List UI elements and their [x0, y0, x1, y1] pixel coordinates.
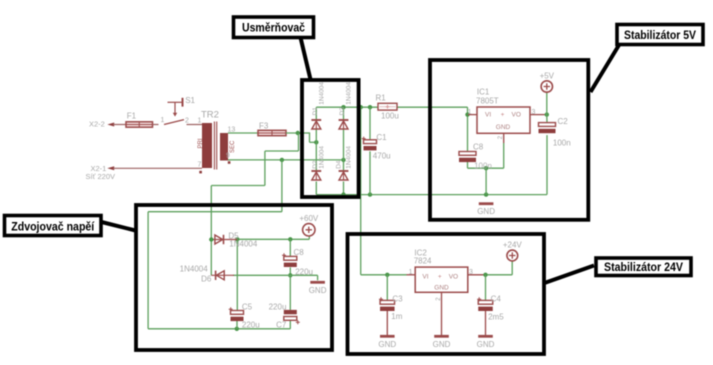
svg-text:VI: VI: [422, 274, 428, 281]
svg-text:C1: C1: [376, 133, 387, 142]
svg-text:1: 1: [409, 269, 413, 276]
svg-text:+60V: +60V: [299, 214, 319, 223]
svg-text:D4: D4: [336, 160, 343, 169]
svg-text:C8: C8: [473, 142, 484, 151]
svg-text:C5: C5: [242, 303, 253, 312]
svg-text:GND: GND: [434, 285, 449, 292]
svg-text:VO: VO: [449, 274, 458, 281]
svg-text:GND: GND: [477, 207, 495, 216]
svg-text:7824: 7824: [414, 256, 432, 265]
svg-text:220u: 220u: [295, 267, 313, 276]
svg-text:100u: 100u: [381, 111, 399, 120]
svg-text:PRI: PRI: [198, 138, 204, 148]
svg-text:1N4004: 1N4004: [345, 146, 352, 169]
svg-text:100n: 100n: [553, 139, 571, 148]
svg-text:3: 3: [469, 269, 473, 276]
svg-text:S1: S1: [185, 96, 195, 105]
svg-text:+24V: +24V: [503, 241, 523, 250]
svg-text:GND: GND: [309, 286, 327, 295]
svg-text:C3: C3: [392, 294, 403, 303]
svg-text:SEC: SEC: [230, 140, 236, 153]
svg-text:VO: VO: [512, 112, 521, 119]
svg-text:Usměrňovač: Usměrňovač: [242, 21, 305, 35]
svg-text:1: 1: [198, 117, 202, 124]
svg-text:GND: GND: [496, 124, 511, 131]
svg-text:VI: VI: [485, 112, 491, 119]
svg-text:Stabilizátor 5V: Stabilizátor 5V: [624, 28, 696, 42]
svg-text:Stabilizátor 24V: Stabilizátor 24V: [604, 260, 683, 274]
svg-text:GND: GND: [433, 340, 451, 349]
svg-text:C4: C4: [491, 294, 502, 303]
svg-text:1m: 1m: [391, 312, 402, 321]
svg-text:2m5: 2m5: [488, 313, 504, 322]
svg-text:7: 7: [198, 161, 202, 168]
svg-text:1N4004: 1N4004: [319, 82, 326, 105]
svg-text:+5V: +5V: [540, 71, 555, 80]
svg-text:C8: C8: [294, 248, 305, 257]
svg-text:D3: D3: [339, 107, 346, 116]
svg-text:IC1: IC1: [477, 88, 490, 97]
svg-text:D6: D6: [201, 274, 212, 283]
svg-text:220u: 220u: [269, 303, 287, 312]
svg-text:1: 1: [468, 109, 472, 116]
svg-text:7805T: 7805T: [476, 97, 499, 106]
svg-text:F1: F1: [127, 112, 137, 121]
svg-text:D1: D1: [312, 107, 319, 116]
svg-text:220u: 220u: [242, 321, 260, 330]
svg-text:1: 1: [161, 117, 165, 124]
svg-text:2: 2: [185, 117, 189, 124]
svg-text:1N4004: 1N4004: [345, 82, 352, 105]
svg-text:9: 9: [226, 153, 230, 160]
svg-text:+: +: [501, 111, 505, 118]
svg-text:100n: 100n: [474, 161, 492, 170]
svg-text:R1: R1: [376, 93, 387, 102]
svg-text:TR2: TR2: [201, 110, 219, 121]
svg-text:+: +: [438, 273, 442, 280]
svg-text:1N4004: 1N4004: [319, 146, 326, 169]
svg-text:GND: GND: [477, 340, 495, 349]
svg-text:C2: C2: [558, 117, 569, 126]
svg-text:470u: 470u: [373, 151, 391, 160]
svg-text:GND: GND: [378, 340, 396, 349]
svg-text:3: 3: [532, 109, 536, 116]
svg-text:Síť 220V: Síť 220V: [86, 172, 116, 181]
svg-text:1N4004: 1N4004: [229, 240, 258, 249]
svg-text:F3: F3: [259, 121, 269, 130]
svg-text:Zdvojovač napěí: Zdvojovač napěí: [11, 219, 95, 233]
svg-text:C7: C7: [276, 321, 287, 330]
svg-text:X2-2: X2-2: [89, 119, 105, 128]
svg-text:1N4004: 1N4004: [180, 264, 209, 273]
